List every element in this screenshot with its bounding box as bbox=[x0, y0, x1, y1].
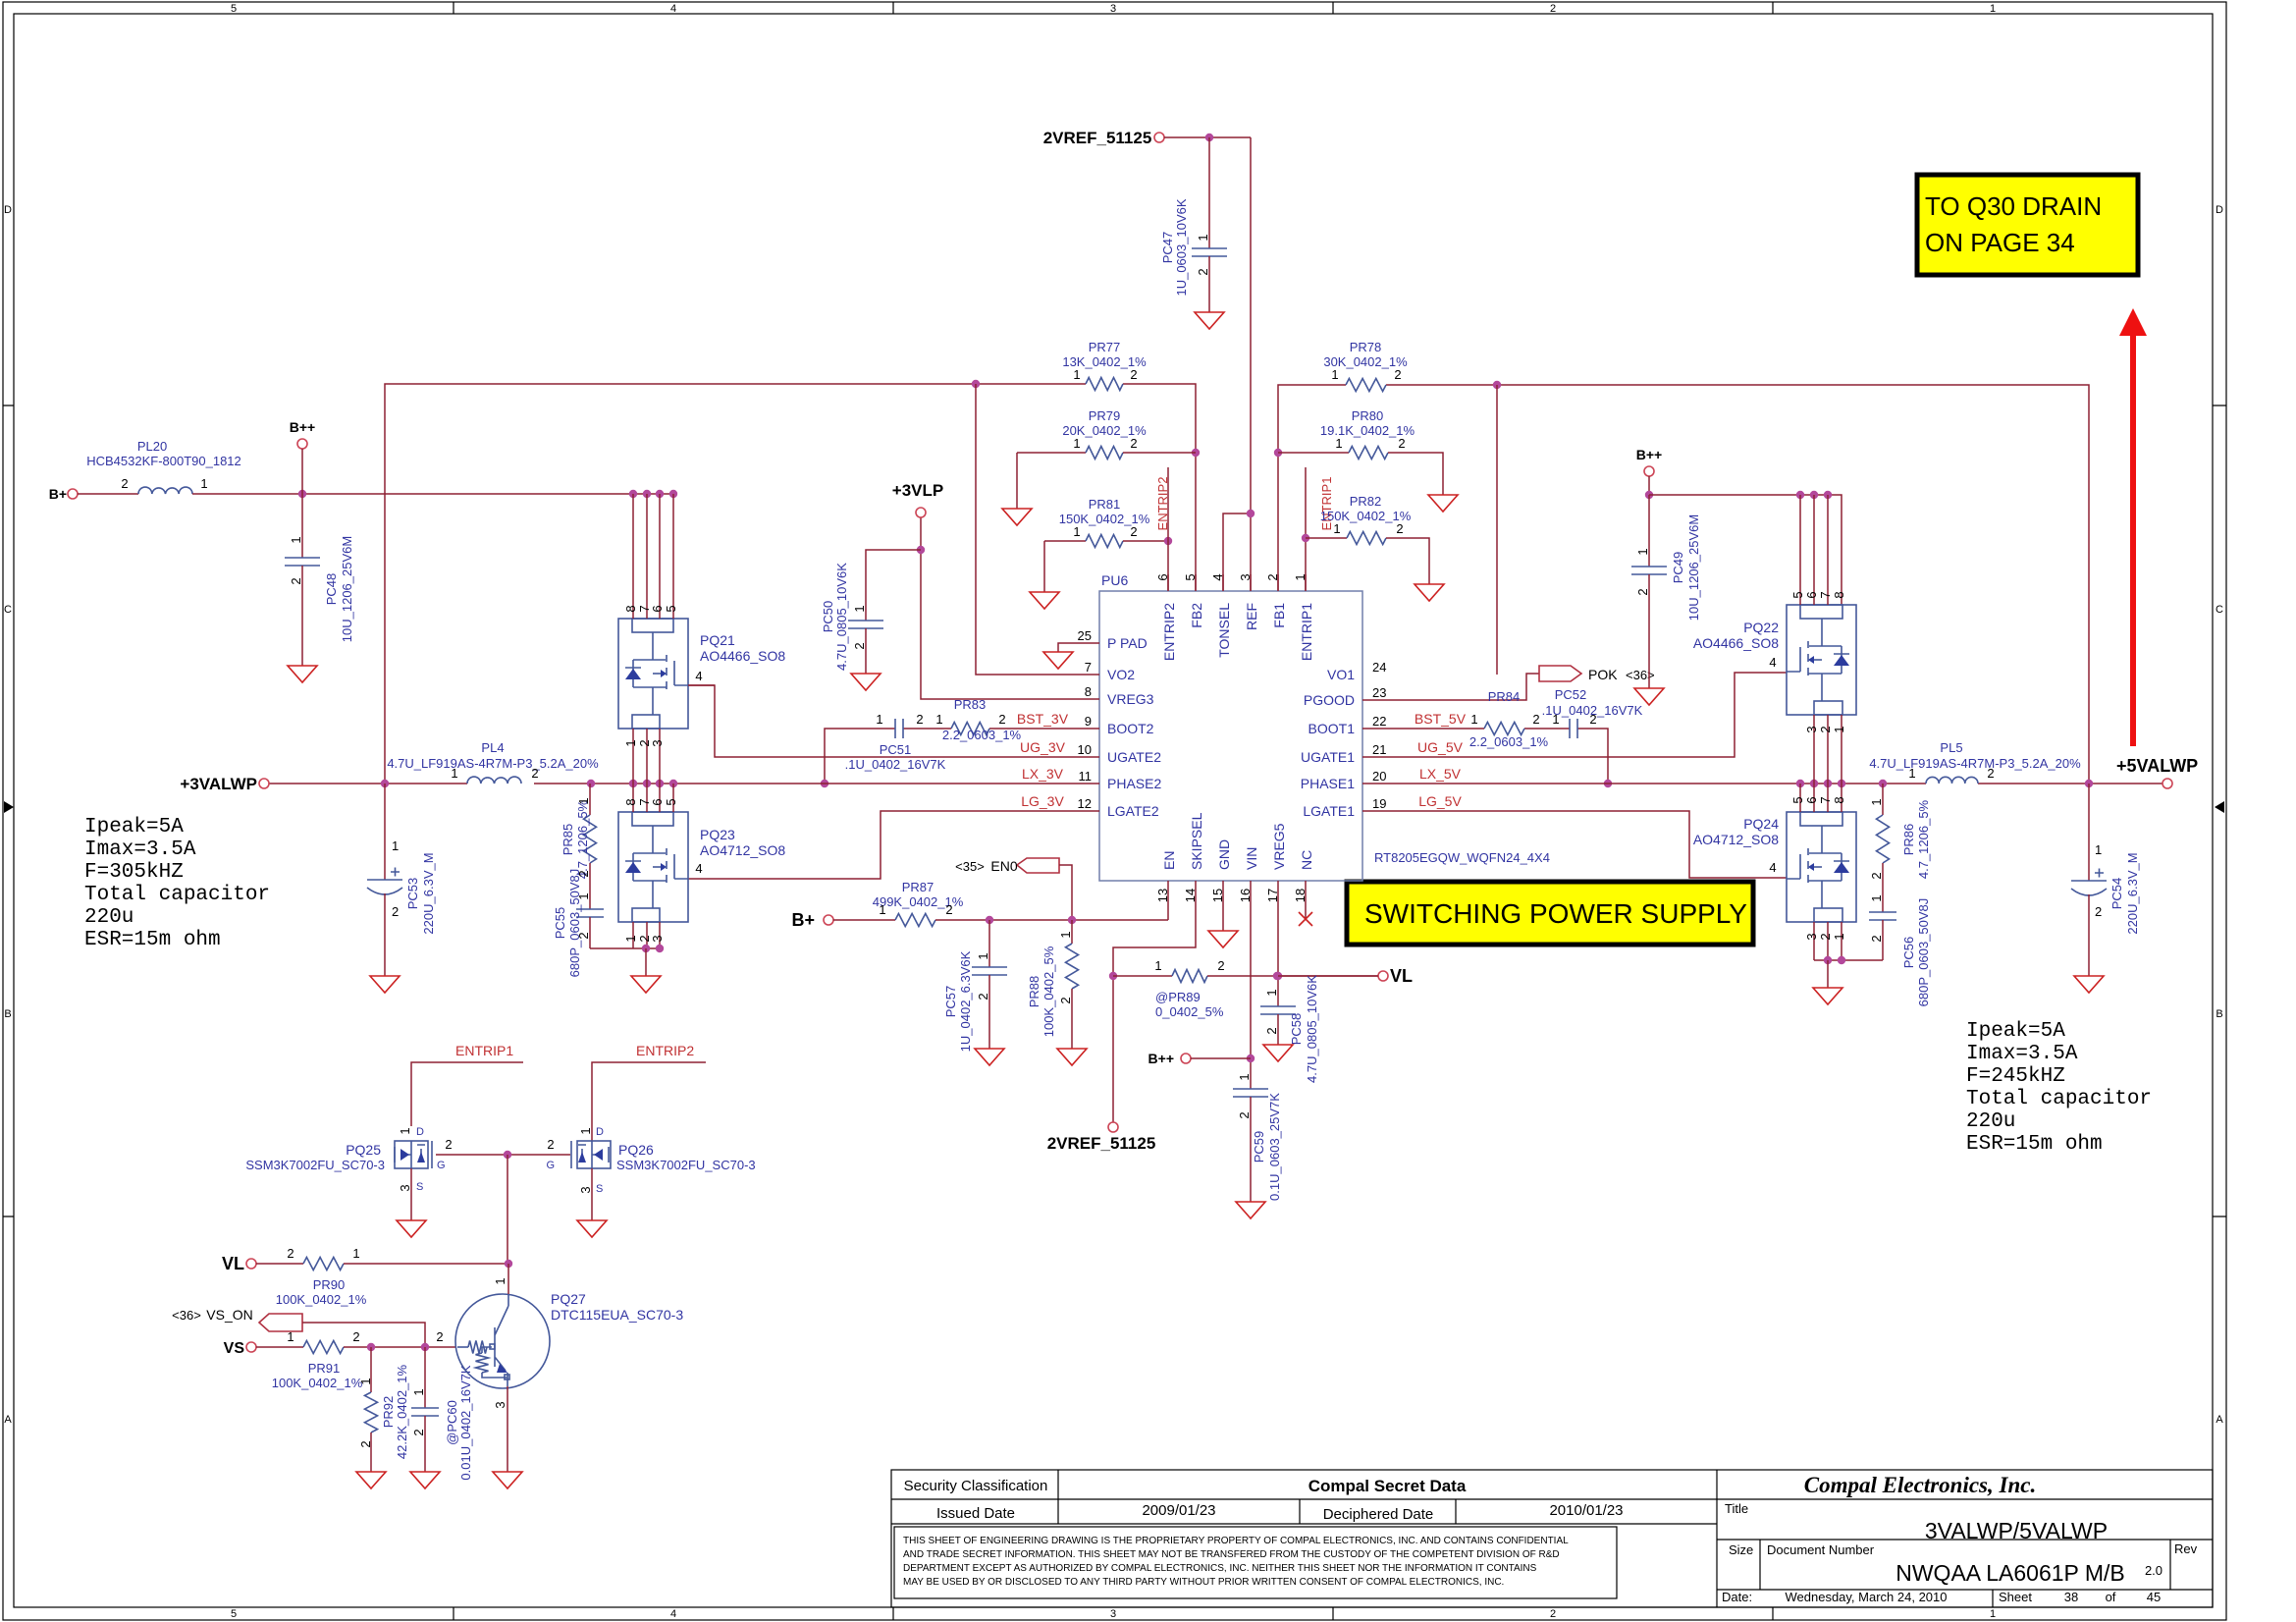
resistor PR77 bbox=[1062, 340, 1147, 391]
svg-text:PR92: PR92 bbox=[381, 1396, 396, 1429]
resistor PR85 bbox=[561, 784, 597, 909]
svg-text:1U_0402_6.3V6K: 1U_0402_6.3V6K bbox=[958, 950, 973, 1052]
svg-text:REF: REF bbox=[1244, 603, 1259, 630]
svg-text:8: 8 bbox=[1832, 796, 1846, 803]
ground (PC47) bbox=[1195, 312, 1224, 329]
note: right output specs bbox=[1966, 1020, 2152, 1156]
svg-text:<36>: <36> bbox=[172, 1308, 201, 1323]
svg-text:2009/01/23: 2009/01/23 bbox=[1142, 1502, 1215, 1519]
svg-text:@PC60: @PC60 bbox=[445, 1400, 459, 1445]
wire REF column bbox=[1250, 137, 1252, 591]
node B++ (center) bbox=[1148, 1051, 1251, 1066]
ground (PC59) bbox=[1236, 1202, 1265, 1218]
svg-text:B+: B+ bbox=[49, 486, 67, 502]
svg-text:2: 2 bbox=[287, 1246, 294, 1261]
svg-text:D: D bbox=[416, 1126, 424, 1138]
svg-text:Imax=3.5A: Imax=3.5A bbox=[1966, 1043, 2078, 1065]
svg-text:<36>: <36> bbox=[1626, 668, 1655, 682]
ground (PR82) bbox=[1415, 584, 1444, 601]
wire PQ23 source row bbox=[590, 945, 664, 976]
capacitor PC58 bbox=[1260, 975, 1319, 1083]
svg-text:2: 2 bbox=[352, 1329, 359, 1344]
svg-text:AO4712_SO8: AO4712_SO8 bbox=[1693, 832, 1779, 847]
svg-text:PC58: PC58 bbox=[1289, 1013, 1304, 1046]
svg-text:5: 5 bbox=[664, 798, 678, 805]
svg-text:21: 21 bbox=[1372, 742, 1386, 757]
capacitor PC57 bbox=[943, 920, 1007, 1052]
svg-text:PC57: PC57 bbox=[943, 986, 958, 1018]
svg-text:220u: 220u bbox=[84, 906, 133, 929]
svg-text:38: 38 bbox=[2064, 1590, 2078, 1604]
capacitor PC47 bbox=[1160, 137, 1227, 312]
svg-text:A: A bbox=[4, 1414, 12, 1426]
svg-text:4: 4 bbox=[1769, 655, 1776, 670]
title block bbox=[891, 1470, 2213, 1607]
svg-text:2: 2 bbox=[1987, 766, 1994, 781]
svg-text:AO4466_SO8: AO4466_SO8 bbox=[1693, 635, 1779, 651]
svg-text:2: 2 bbox=[1196, 268, 1210, 275]
svg-text:2: 2 bbox=[1398, 436, 1405, 451]
wire VO1 sense bus (right) bbox=[1274, 381, 2089, 784]
transistor PQ21 AO4466_SO8 bbox=[618, 494, 785, 784]
svg-text:3: 3 bbox=[650, 739, 665, 746]
svg-text:1: 1 bbox=[1832, 726, 1846, 732]
svg-text:4.7U_0805_10V6K: 4.7U_0805_10V6K bbox=[834, 563, 849, 671]
svg-text:VS: VS bbox=[224, 1340, 245, 1357]
svg-text:BST_5V: BST_5V bbox=[1415, 711, 1467, 727]
resistor PR87 bbox=[873, 880, 1168, 927]
svg-text:8: 8 bbox=[623, 605, 638, 612]
net EN0 arrow bbox=[955, 858, 1072, 920]
svg-text:P PAD: P PAD bbox=[1107, 635, 1148, 651]
svg-text:3: 3 bbox=[1804, 933, 1819, 940]
inductor PL4 bbox=[387, 740, 599, 784]
svg-text:PL5: PL5 bbox=[1940, 740, 1962, 755]
svg-text:42.2K_0402_1%: 42.2K_0402_1% bbox=[395, 1364, 409, 1459]
svg-text:0_0402_5%: 0_0402_5% bbox=[1155, 1004, 1224, 1019]
svg-text:5: 5 bbox=[664, 605, 678, 612]
wire 2VREF to REF column bbox=[1164, 134, 1251, 141]
svg-text:Security Classification: Security Classification bbox=[904, 1478, 1048, 1494]
svg-text:PL4: PL4 bbox=[481, 740, 504, 755]
svg-text:PC56: PC56 bbox=[1901, 937, 1916, 969]
resistor PR92 bbox=[358, 1347, 409, 1472]
svg-text:4: 4 bbox=[1769, 860, 1776, 875]
svg-text:0.1U_0603_25V7K: 0.1U_0603_25V7K bbox=[1267, 1093, 1282, 1201]
svg-text:1: 1 bbox=[576, 797, 591, 804]
resistor PR82 bbox=[1306, 494, 1429, 584]
node 2VREF_51125 (top) bbox=[1043, 129, 1164, 147]
note: left output specs bbox=[84, 816, 270, 951]
svg-text:LG_3V: LG_3V bbox=[1021, 793, 1064, 809]
wire UGATE2 / net UG_3V bbox=[688, 685, 1099, 757]
svg-text:2: 2 bbox=[1635, 588, 1650, 595]
wire PHASE2 LX_3V rail / node +3VALWP bbox=[180, 766, 1099, 793]
svg-text:PQ24: PQ24 bbox=[1743, 816, 1779, 832]
svg-text:0.01U_0402_16V7K: 0.01U_0402_16V7K bbox=[458, 1365, 473, 1480]
wire ENTRIP2 column / net ENTRIP2 bbox=[1155, 467, 1170, 591]
svg-text:MAY BE USED BY OR DISCLOSED TO: MAY BE USED BY OR DISCLOSED TO ANY THIRD… bbox=[903, 1577, 1504, 1588]
svg-text:PR84: PR84 bbox=[1488, 689, 1521, 704]
svg-text:PR80: PR80 bbox=[1352, 408, 1384, 423]
svg-text:3: 3 bbox=[398, 1184, 412, 1191]
node VL (bottom left) bbox=[222, 1254, 303, 1273]
svg-text:2010/01/23: 2010/01/23 bbox=[1549, 1502, 1623, 1519]
svg-text:SWITCHING POWER SUPPLY: SWITCHING POWER SUPPLY bbox=[1364, 898, 1747, 929]
svg-text:@PR89: @PR89 bbox=[1155, 990, 1201, 1004]
svg-text:1: 1 bbox=[392, 838, 399, 853]
svg-text:EN0: EN0 bbox=[990, 858, 1017, 874]
transistor PQ24 AO4712_SO8 bbox=[1693, 784, 1856, 960]
wire B++ rail (right) bbox=[1649, 491, 1842, 605]
resistor PR83 bbox=[935, 697, 1021, 742]
net ENTRIP1 stub bbox=[411, 1043, 523, 1126]
svg-text:4.7_1206_5%: 4.7_1206_5% bbox=[1916, 799, 1931, 879]
red arrow to Q30 drain bbox=[2119, 308, 2147, 746]
svg-text:1: 1 bbox=[1058, 931, 1073, 938]
svg-text:2: 2 bbox=[436, 1329, 443, 1344]
svg-text:F=305kHZ: F=305kHZ bbox=[84, 861, 184, 884]
svg-text:LG_5V: LG_5V bbox=[1418, 793, 1462, 809]
svg-text:G: G bbox=[546, 1160, 555, 1171]
svg-text:11: 11 bbox=[1079, 769, 1093, 784]
svg-text:LGATE1: LGATE1 bbox=[1303, 803, 1355, 819]
svg-text:2: 2 bbox=[1217, 958, 1224, 973]
svg-text:2: 2 bbox=[1869, 872, 1884, 879]
svg-text:2: 2 bbox=[1869, 935, 1884, 942]
wire PQ25 source to ground bbox=[397, 1168, 426, 1237]
svg-text:2: 2 bbox=[392, 904, 399, 919]
svg-text:4.7U_0805_10V6K: 4.7U_0805_10V6K bbox=[1305, 975, 1319, 1083]
node VL (center) bbox=[1378, 966, 1413, 986]
svg-text:PR82: PR82 bbox=[1350, 494, 1382, 509]
yellow note SWITCHING POWER SUPPLY bbox=[1347, 882, 1753, 945]
svg-text:AND TRADE SECRET INFORMATION.: AND TRADE SECRET INFORMATION. THIS SHEET… bbox=[903, 1549, 1560, 1560]
ground (PC58) bbox=[1263, 1045, 1293, 1061]
wire UGATE1 / net UG_5V bbox=[1362, 655, 1787, 757]
svg-text:B: B bbox=[4, 1008, 11, 1020]
svg-text:1: 1 bbox=[1869, 894, 1884, 901]
svg-text:1: 1 bbox=[1908, 766, 1915, 781]
svg-text:Sheet: Sheet bbox=[1999, 1590, 2032, 1604]
svg-text:<35>: <35> bbox=[955, 859, 985, 874]
svg-text:Wednesday, March 24, 2010: Wednesday, March 24, 2010 bbox=[1785, 1590, 1947, 1604]
svg-text:6: 6 bbox=[650, 798, 665, 805]
svg-text:1: 1 bbox=[623, 935, 638, 942]
svg-text:PC49: PC49 bbox=[1671, 552, 1685, 584]
svg-text:2: 2 bbox=[1130, 524, 1137, 539]
svg-text:EN: EN bbox=[1161, 851, 1177, 870]
svg-text:4: 4 bbox=[695, 669, 702, 683]
svg-text:VIN: VIN bbox=[1244, 847, 1259, 870]
svg-text:8: 8 bbox=[1832, 591, 1846, 598]
svg-text:4: 4 bbox=[670, 1608, 676, 1620]
resistor @PR89 bbox=[1113, 958, 1378, 1019]
svg-text:1: 1 bbox=[879, 902, 885, 917]
node B+ (left input) bbox=[49, 486, 138, 502]
svg-text:ENTRIP1: ENTRIP1 bbox=[1299, 603, 1314, 661]
svg-text:FB1: FB1 bbox=[1271, 603, 1287, 628]
svg-text:B+: B+ bbox=[791, 910, 815, 930]
svg-text:Issued Date: Issued Date bbox=[936, 1505, 1015, 1522]
IC U: PU6 RT8205EGQW bbox=[1078, 572, 1550, 902]
svg-text:PHASE2: PHASE2 bbox=[1107, 776, 1161, 791]
svg-text:UGATE2: UGATE2 bbox=[1107, 749, 1161, 765]
svg-text:2: 2 bbox=[576, 932, 591, 939]
svg-text:2: 2 bbox=[1058, 997, 1073, 1003]
svg-text:ENTRIP2: ENTRIP2 bbox=[1155, 477, 1170, 531]
svg-text:.1U_0402_16V7K: .1U_0402_16V7K bbox=[845, 757, 946, 772]
wire SKIPSEL pin 14 to 2VREF bbox=[1109, 881, 1196, 1122]
resistor PR90 bbox=[276, 1246, 512, 1307]
svg-text:1: 1 bbox=[358, 1378, 373, 1384]
svg-text:G: G bbox=[437, 1160, 446, 1171]
svg-text:4.7U_LF919AS-4R7M-P3_5.2A_20%: 4.7U_LF919AS-4R7M-P3_5.2A_20% bbox=[1869, 756, 2081, 771]
svg-text:2VREF_51125: 2VREF_51125 bbox=[1043, 129, 1152, 147]
svg-text:1: 1 bbox=[451, 766, 457, 781]
svg-text:1: 1 bbox=[1073, 524, 1080, 539]
svg-text:Document Number: Document Number bbox=[1767, 1542, 1875, 1557]
wire EN pin 13 bbox=[1167, 881, 1169, 920]
capacitor @PC60 bbox=[411, 1347, 473, 1481]
svg-text:2: 2 bbox=[945, 902, 952, 917]
svg-text:2: 2 bbox=[1550, 3, 1556, 15]
svg-text:2: 2 bbox=[1130, 436, 1137, 451]
svg-text:4: 4 bbox=[695, 861, 702, 876]
svg-text:3VALWP/5VALWP: 3VALWP/5VALWP bbox=[1925, 1518, 2108, 1543]
svg-text:THIS SHEET OF ENGINEERING DRAW: THIS SHEET OF ENGINEERING DRAWING IS THE… bbox=[903, 1536, 1569, 1546]
svg-text:10: 10 bbox=[1078, 742, 1092, 757]
svg-text:1: 1 bbox=[1196, 234, 1210, 241]
ground (PR92) bbox=[356, 1472, 386, 1488]
svg-text:PQ25: PQ25 bbox=[346, 1142, 381, 1158]
svg-text:220U_6.3V_M: 220U_6.3V_M bbox=[2125, 852, 2140, 934]
svg-text:2: 2 bbox=[998, 712, 1005, 727]
svg-text:PC50: PC50 bbox=[821, 601, 835, 633]
wire B++ rail (left) bbox=[192, 490, 677, 498]
wire VO1 riser bbox=[1496, 385, 1498, 675]
svg-text:Compal Electronics, Inc.: Compal Electronics, Inc. bbox=[1804, 1473, 2036, 1497]
svg-text:1U_0603_10V6K: 1U_0603_10V6K bbox=[1174, 198, 1189, 296]
svg-text:VL: VL bbox=[222, 1254, 244, 1273]
svg-text:RT8205EGQW_WQFN24_4X4: RT8205EGQW_WQFN24_4X4 bbox=[1374, 850, 1550, 865]
svg-text:PR87: PR87 bbox=[902, 880, 934, 894]
capacitor PC59 bbox=[1233, 1073, 1282, 1202]
svg-text:VS_ON: VS_ON bbox=[206, 1307, 252, 1323]
svg-text:6: 6 bbox=[1804, 796, 1819, 803]
svg-text:LX_3V: LX_3V bbox=[1022, 766, 1064, 782]
ground (PC53) bbox=[370, 976, 400, 993]
svg-text:Imax=3.5A: Imax=3.5A bbox=[84, 838, 196, 861]
svg-text:1: 1 bbox=[411, 1388, 426, 1395]
svg-text:SKIPSEL: SKIPSEL bbox=[1189, 812, 1204, 870]
svg-text:1: 1 bbox=[1333, 521, 1340, 536]
svg-text:2: 2 bbox=[358, 1440, 373, 1447]
svg-text:1: 1 bbox=[1990, 1608, 1996, 1620]
ground (PR88) bbox=[1057, 1049, 1087, 1065]
svg-text:1: 1 bbox=[1335, 436, 1342, 451]
svg-text:2: 2 bbox=[1264, 1027, 1279, 1034]
svg-text:PR77: PR77 bbox=[1089, 340, 1121, 354]
svg-text:UG_3V: UG_3V bbox=[1020, 739, 1066, 755]
net POK arrow bbox=[1362, 666, 1655, 700]
svg-text:D: D bbox=[596, 1126, 604, 1138]
resistor PR78 bbox=[1323, 340, 1408, 392]
svg-text:6: 6 bbox=[1804, 591, 1819, 598]
ground (GND pin 15) bbox=[1208, 881, 1238, 947]
wire BOOT1 / net BST_5V bbox=[1362, 711, 1612, 787]
svg-text:2: 2 bbox=[1130, 367, 1137, 382]
svg-text:PQ23: PQ23 bbox=[700, 827, 735, 842]
svg-text:Deciphered Date: Deciphered Date bbox=[1323, 1506, 1434, 1523]
svg-text:220U_6.3V_M: 220U_6.3V_M bbox=[421, 852, 436, 934]
svg-text:PR88: PR88 bbox=[1027, 976, 1041, 1008]
ground (PC50) bbox=[851, 674, 881, 690]
svg-text:PR91: PR91 bbox=[308, 1361, 341, 1376]
svg-text:PHASE1: PHASE1 bbox=[1301, 776, 1355, 791]
inductor PL5 bbox=[1869, 740, 2081, 784]
capacitor PC48 bbox=[285, 494, 354, 666]
capacitor PC54 (polarized) bbox=[2071, 784, 2140, 976]
svg-text:F=245kHZ: F=245kHZ bbox=[1966, 1065, 2065, 1088]
svg-text:DEPARTMENT EXCEPT AS AUTHORIZE: DEPARTMENT EXCEPT AS AUTHORIZED BY COMPA… bbox=[903, 1563, 1537, 1574]
no-connect X on pin 18 bbox=[1299, 881, 1312, 926]
svg-text:LGATE2: LGATE2 bbox=[1107, 803, 1159, 819]
svg-text:GND: GND bbox=[1216, 839, 1232, 870]
capacitor PC50 bbox=[821, 550, 921, 674]
svg-text:PR90: PR90 bbox=[313, 1277, 346, 1292]
svg-text:PR78: PR78 bbox=[1350, 340, 1382, 354]
svg-text:Rev: Rev bbox=[2174, 1541, 2198, 1556]
svg-text:45: 45 bbox=[2147, 1590, 2161, 1604]
svg-text:5: 5 bbox=[231, 1608, 237, 1620]
wire LGATE1 / net LG_5V bbox=[1362, 793, 1787, 878]
svg-text:B: B bbox=[2216, 1008, 2222, 1020]
pin 25 P PAD stub + ground bbox=[1043, 643, 1099, 669]
svg-text:VREG5: VREG5 bbox=[1271, 823, 1287, 870]
svg-text:680P_0603_50V8J: 680P_0603_50V8J bbox=[1916, 898, 1931, 1007]
svg-text:of: of bbox=[2106, 1590, 2116, 1604]
svg-text:8: 8 bbox=[1085, 684, 1092, 699]
svg-text:9: 9 bbox=[1085, 714, 1092, 729]
svg-text:2: 2 bbox=[1532, 712, 1539, 727]
node +3VLP / wire VREG3 bbox=[892, 481, 1099, 699]
svg-text:2: 2 bbox=[852, 642, 867, 649]
svg-text:1: 1 bbox=[398, 1127, 412, 1134]
svg-text:+3VALWP: +3VALWP bbox=[180, 775, 257, 793]
svg-text:1: 1 bbox=[1832, 933, 1846, 940]
wire PQ24 source row bbox=[1814, 956, 1883, 988]
svg-text:A: A bbox=[2216, 1414, 2223, 1426]
transistor PQ27 DTC115EUA bbox=[436, 1264, 683, 1409]
svg-text:25: 25 bbox=[1078, 628, 1092, 643]
svg-text:Size: Size bbox=[1729, 1542, 1753, 1557]
inductor PL20 bbox=[86, 439, 241, 494]
svg-text:12: 12 bbox=[1078, 796, 1092, 811]
resistor PR91 bbox=[272, 1329, 455, 1390]
svg-text:24: 24 bbox=[1372, 660, 1386, 675]
svg-text:5: 5 bbox=[1790, 796, 1805, 803]
ground (PQ23 source) bbox=[631, 976, 661, 993]
node 2VREF_51125 (bottom) bbox=[1047, 1122, 1156, 1153]
svg-text:1: 1 bbox=[578, 1127, 593, 1134]
svg-text:2: 2 bbox=[1394, 367, 1401, 382]
svg-text:3: 3 bbox=[578, 1186, 593, 1193]
svg-text:VO1: VO1 bbox=[1327, 667, 1355, 682]
svg-text:HCB4532KF-800T90_1812: HCB4532KF-800T90_1812 bbox=[86, 454, 241, 468]
svg-text:19: 19 bbox=[1372, 796, 1386, 811]
svg-text:VREG3: VREG3 bbox=[1107, 691, 1154, 707]
wire LGATE2 / net LG_3V bbox=[688, 793, 1099, 879]
svg-text:22: 22 bbox=[1372, 714, 1386, 729]
svg-text:NC: NC bbox=[1299, 850, 1314, 870]
svg-text:TO Q30 DRAIN: TO Q30 DRAIN bbox=[1925, 191, 2102, 221]
node VS bbox=[224, 1340, 303, 1357]
resistor PR80 bbox=[1278, 408, 1443, 495]
svg-text:4.7U_LF919AS-4R7M-P3_5.2A_20%: 4.7U_LF919AS-4R7M-P3_5.2A_20% bbox=[387, 756, 599, 771]
svg-text:2: 2 bbox=[1396, 521, 1403, 536]
svg-text:10U_1206_25V6M: 10U_1206_25V6M bbox=[1686, 514, 1701, 621]
capacitor PC52 bbox=[1542, 687, 1643, 738]
svg-text:PC53: PC53 bbox=[405, 878, 420, 910]
svg-text:UG_5V: UG_5V bbox=[1417, 739, 1464, 755]
svg-text:2: 2 bbox=[531, 766, 538, 781]
ground (PR81) bbox=[1030, 592, 1059, 609]
node B++ (left) bbox=[290, 419, 315, 494]
svg-text:7: 7 bbox=[1818, 591, 1833, 598]
node B++ (right) bbox=[1636, 447, 1662, 499]
svg-text:1: 1 bbox=[289, 536, 303, 543]
svg-text:.1U_0402_16V7K: .1U_0402_16V7K bbox=[1542, 703, 1643, 718]
svg-text:S: S bbox=[596, 1183, 603, 1195]
svg-text:5: 5 bbox=[231, 3, 237, 15]
svg-text:1: 1 bbox=[976, 952, 990, 959]
svg-text:AO4712_SO8: AO4712_SO8 bbox=[700, 842, 785, 858]
svg-text:PR79: PR79 bbox=[1089, 408, 1121, 423]
svg-text:BOOT1: BOOT1 bbox=[1308, 721, 1356, 736]
svg-text:SSM3K7002FU_SC70-3: SSM3K7002FU_SC70-3 bbox=[616, 1158, 756, 1172]
svg-text:B++: B++ bbox=[1148, 1051, 1174, 1066]
svg-text:VO2: VO2 bbox=[1107, 667, 1135, 682]
svg-text:1: 1 bbox=[493, 1277, 507, 1284]
svg-text:8: 8 bbox=[623, 798, 638, 805]
svg-text:PU6: PU6 bbox=[1101, 572, 1128, 588]
wire PQ27 emitter to ground bbox=[493, 1386, 522, 1488]
svg-text:BST_3V: BST_3V bbox=[1017, 711, 1069, 727]
svg-text:100K_0402_1%: 100K_0402_1% bbox=[272, 1376, 363, 1390]
svg-text:3: 3 bbox=[1110, 1608, 1116, 1620]
svg-text:PC51: PC51 bbox=[880, 742, 912, 757]
svg-text:Title: Title bbox=[1725, 1501, 1748, 1516]
svg-text:PR81: PR81 bbox=[1089, 497, 1121, 512]
svg-text:1: 1 bbox=[1869, 798, 1884, 805]
svg-text:6: 6 bbox=[650, 605, 665, 612]
svg-text:TONSEL: TONSEL bbox=[1216, 603, 1232, 658]
svg-text:20: 20 bbox=[1372, 769, 1386, 784]
wire TONSEL strap to REF bbox=[1223, 510, 1255, 591]
svg-text:S: S bbox=[416, 1181, 423, 1193]
svg-text:+5VALWP: +5VALWP bbox=[2116, 756, 2198, 776]
svg-text:1: 1 bbox=[1237, 1073, 1252, 1080]
svg-text:1: 1 bbox=[852, 605, 867, 612]
svg-text:2VREF_51125: 2VREF_51125 bbox=[1047, 1134, 1156, 1153]
svg-text:ENTRIP2: ENTRIP2 bbox=[1161, 603, 1177, 661]
wire ENTRIP1 column / net ENTRIP1 bbox=[1302, 467, 1334, 591]
resistor PR79 bbox=[1017, 408, 1196, 509]
wire BOOT2 / net BST_3V bbox=[821, 711, 1099, 787]
svg-text:10U_1206_25V6M: 10U_1206_25V6M bbox=[340, 536, 354, 642]
svg-text:1: 1 bbox=[1073, 367, 1080, 382]
